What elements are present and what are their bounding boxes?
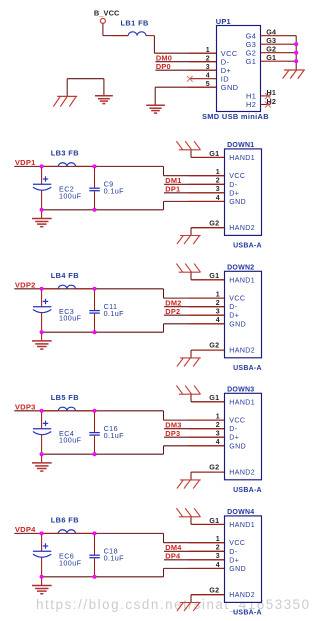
svg-text:G2: G2: [209, 218, 219, 227]
svg-text:VCC: VCC: [229, 540, 245, 547]
svg-text:D+: D+: [229, 313, 239, 320]
svg-text:GND: GND: [229, 199, 246, 206]
svg-text:https://blog.csdn.net/sinat_41: https://blog.csdn.net/sinat_41653350: [36, 597, 311, 612]
svg-text:G1: G1: [209, 271, 219, 280]
svg-text:D-: D-: [229, 549, 237, 556]
svg-text:HAND1: HAND1: [229, 399, 255, 406]
svg-text:100uF: 100uF: [59, 191, 82, 200]
svg-text:1: 1: [206, 47, 210, 54]
svg-text:G1: G1: [209, 149, 219, 158]
svg-text:HAND2: HAND2: [229, 348, 255, 355]
svg-text:D-: D-: [229, 426, 237, 433]
svg-text:4: 4: [216, 317, 220, 324]
svg-text:D+: D+: [229, 435, 239, 442]
svg-text:HAND2: HAND2: [229, 470, 255, 477]
svg-text:LB5 FB: LB5 FB: [51, 393, 79, 402]
svg-text:G2: G2: [209, 585, 219, 594]
svg-text:1: 1: [216, 414, 220, 421]
svg-text:1: 1: [216, 536, 220, 543]
svg-text:GND: GND: [229, 566, 246, 573]
svg-text:100uF: 100uF: [59, 558, 82, 567]
svg-text:HAND2: HAND2: [229, 225, 255, 232]
svg-text:GND: GND: [221, 83, 239, 92]
svg-text:2: 2: [206, 55, 210, 62]
svg-text:VDP4: VDP4: [15, 525, 36, 534]
svg-text:USBA-A: USBA-A: [233, 487, 262, 494]
svg-text:0.1uF: 0.1uF: [104, 309, 125, 318]
svg-text:4: 4: [216, 439, 220, 446]
svg-text:DOWN2: DOWN2: [227, 264, 254, 271]
svg-text:3: 3: [216, 309, 220, 316]
svg-text:H2: H2: [246, 100, 256, 109]
svg-text:5: 5: [206, 81, 210, 88]
svg-text:3: 3: [216, 553, 220, 560]
svg-text:2: 2: [216, 178, 220, 185]
svg-text:VDP1: VDP1: [15, 158, 36, 167]
svg-text:H2: H2: [267, 97, 277, 106]
svg-text:VCC: VCC: [229, 173, 245, 180]
svg-text:DP3: DP3: [165, 429, 180, 438]
svg-text:DOWN3: DOWN3: [227, 386, 254, 393]
svg-text:D+: D+: [229, 190, 239, 197]
svg-text:HAND2: HAND2: [229, 592, 255, 599]
svg-text:HAND1: HAND1: [229, 155, 255, 162]
svg-text:GND: GND: [229, 443, 246, 450]
svg-text:3: 3: [206, 64, 210, 71]
svg-text:G2: G2: [209, 341, 219, 350]
svg-text:0.1uF: 0.1uF: [104, 554, 125, 563]
svg-text:USBA-A: USBA-A: [233, 365, 262, 372]
svg-text:DOWN1: DOWN1: [227, 142, 254, 149]
svg-text:100uF: 100uF: [59, 314, 82, 323]
svg-text:DP1: DP1: [165, 184, 180, 193]
svg-text:USBA-A: USBA-A: [233, 609, 262, 616]
svg-text:4: 4: [206, 72, 210, 79]
svg-text:D-: D-: [229, 304, 237, 311]
svg-text:VCC: VCC: [229, 296, 245, 303]
svg-text:USBA-A: USBA-A: [233, 242, 262, 249]
svg-text:G1: G1: [209, 393, 219, 402]
svg-text:D+: D+: [229, 557, 239, 564]
svg-text:3: 3: [216, 186, 220, 193]
svg-text:VDP2: VDP2: [15, 281, 36, 290]
svg-text:HAND1: HAND1: [229, 277, 255, 284]
svg-text:B_VCC: B_VCC: [94, 9, 120, 18]
svg-text:LB4 FB: LB4 FB: [51, 271, 79, 280]
svg-text:LB3 FB: LB3 FB: [51, 149, 79, 158]
svg-text:1: 1: [216, 169, 220, 176]
svg-text:DOWN4: DOWN4: [227, 509, 254, 516]
svg-text:DP0: DP0: [156, 62, 171, 71]
svg-text:UP1: UP1: [216, 17, 231, 26]
svg-text:G2: G2: [209, 463, 219, 472]
svg-text:4: 4: [216, 562, 220, 569]
svg-text:HAND1: HAND1: [229, 522, 255, 529]
svg-text:LB1 FB: LB1 FB: [121, 18, 149, 27]
svg-text:G1: G1: [209, 516, 219, 525]
svg-text:DP2: DP2: [165, 307, 180, 316]
svg-text:0.1uF: 0.1uF: [104, 187, 125, 196]
svg-text:2: 2: [216, 545, 220, 552]
svg-text:0.1uF: 0.1uF: [104, 431, 125, 440]
svg-text:3: 3: [216, 431, 220, 438]
svg-text:GND: GND: [229, 321, 246, 328]
svg-text:D-: D-: [229, 182, 237, 189]
svg-text:VDP3: VDP3: [15, 403, 36, 412]
svg-text:100uF: 100uF: [59, 436, 82, 445]
svg-text:2: 2: [216, 422, 220, 429]
svg-text:LB6 FB: LB6 FB: [51, 516, 79, 525]
svg-text:G1: G1: [246, 57, 257, 66]
svg-text:VCC: VCC: [229, 418, 245, 425]
svg-text:4: 4: [216, 195, 220, 202]
svg-text:2: 2: [216, 300, 220, 307]
svg-text:G1: G1: [266, 53, 276, 62]
svg-text:DP4: DP4: [165, 551, 181, 560]
svg-text:SMD USB miniAB: SMD USB miniAB: [202, 112, 269, 121]
svg-text:1: 1: [216, 292, 220, 299]
